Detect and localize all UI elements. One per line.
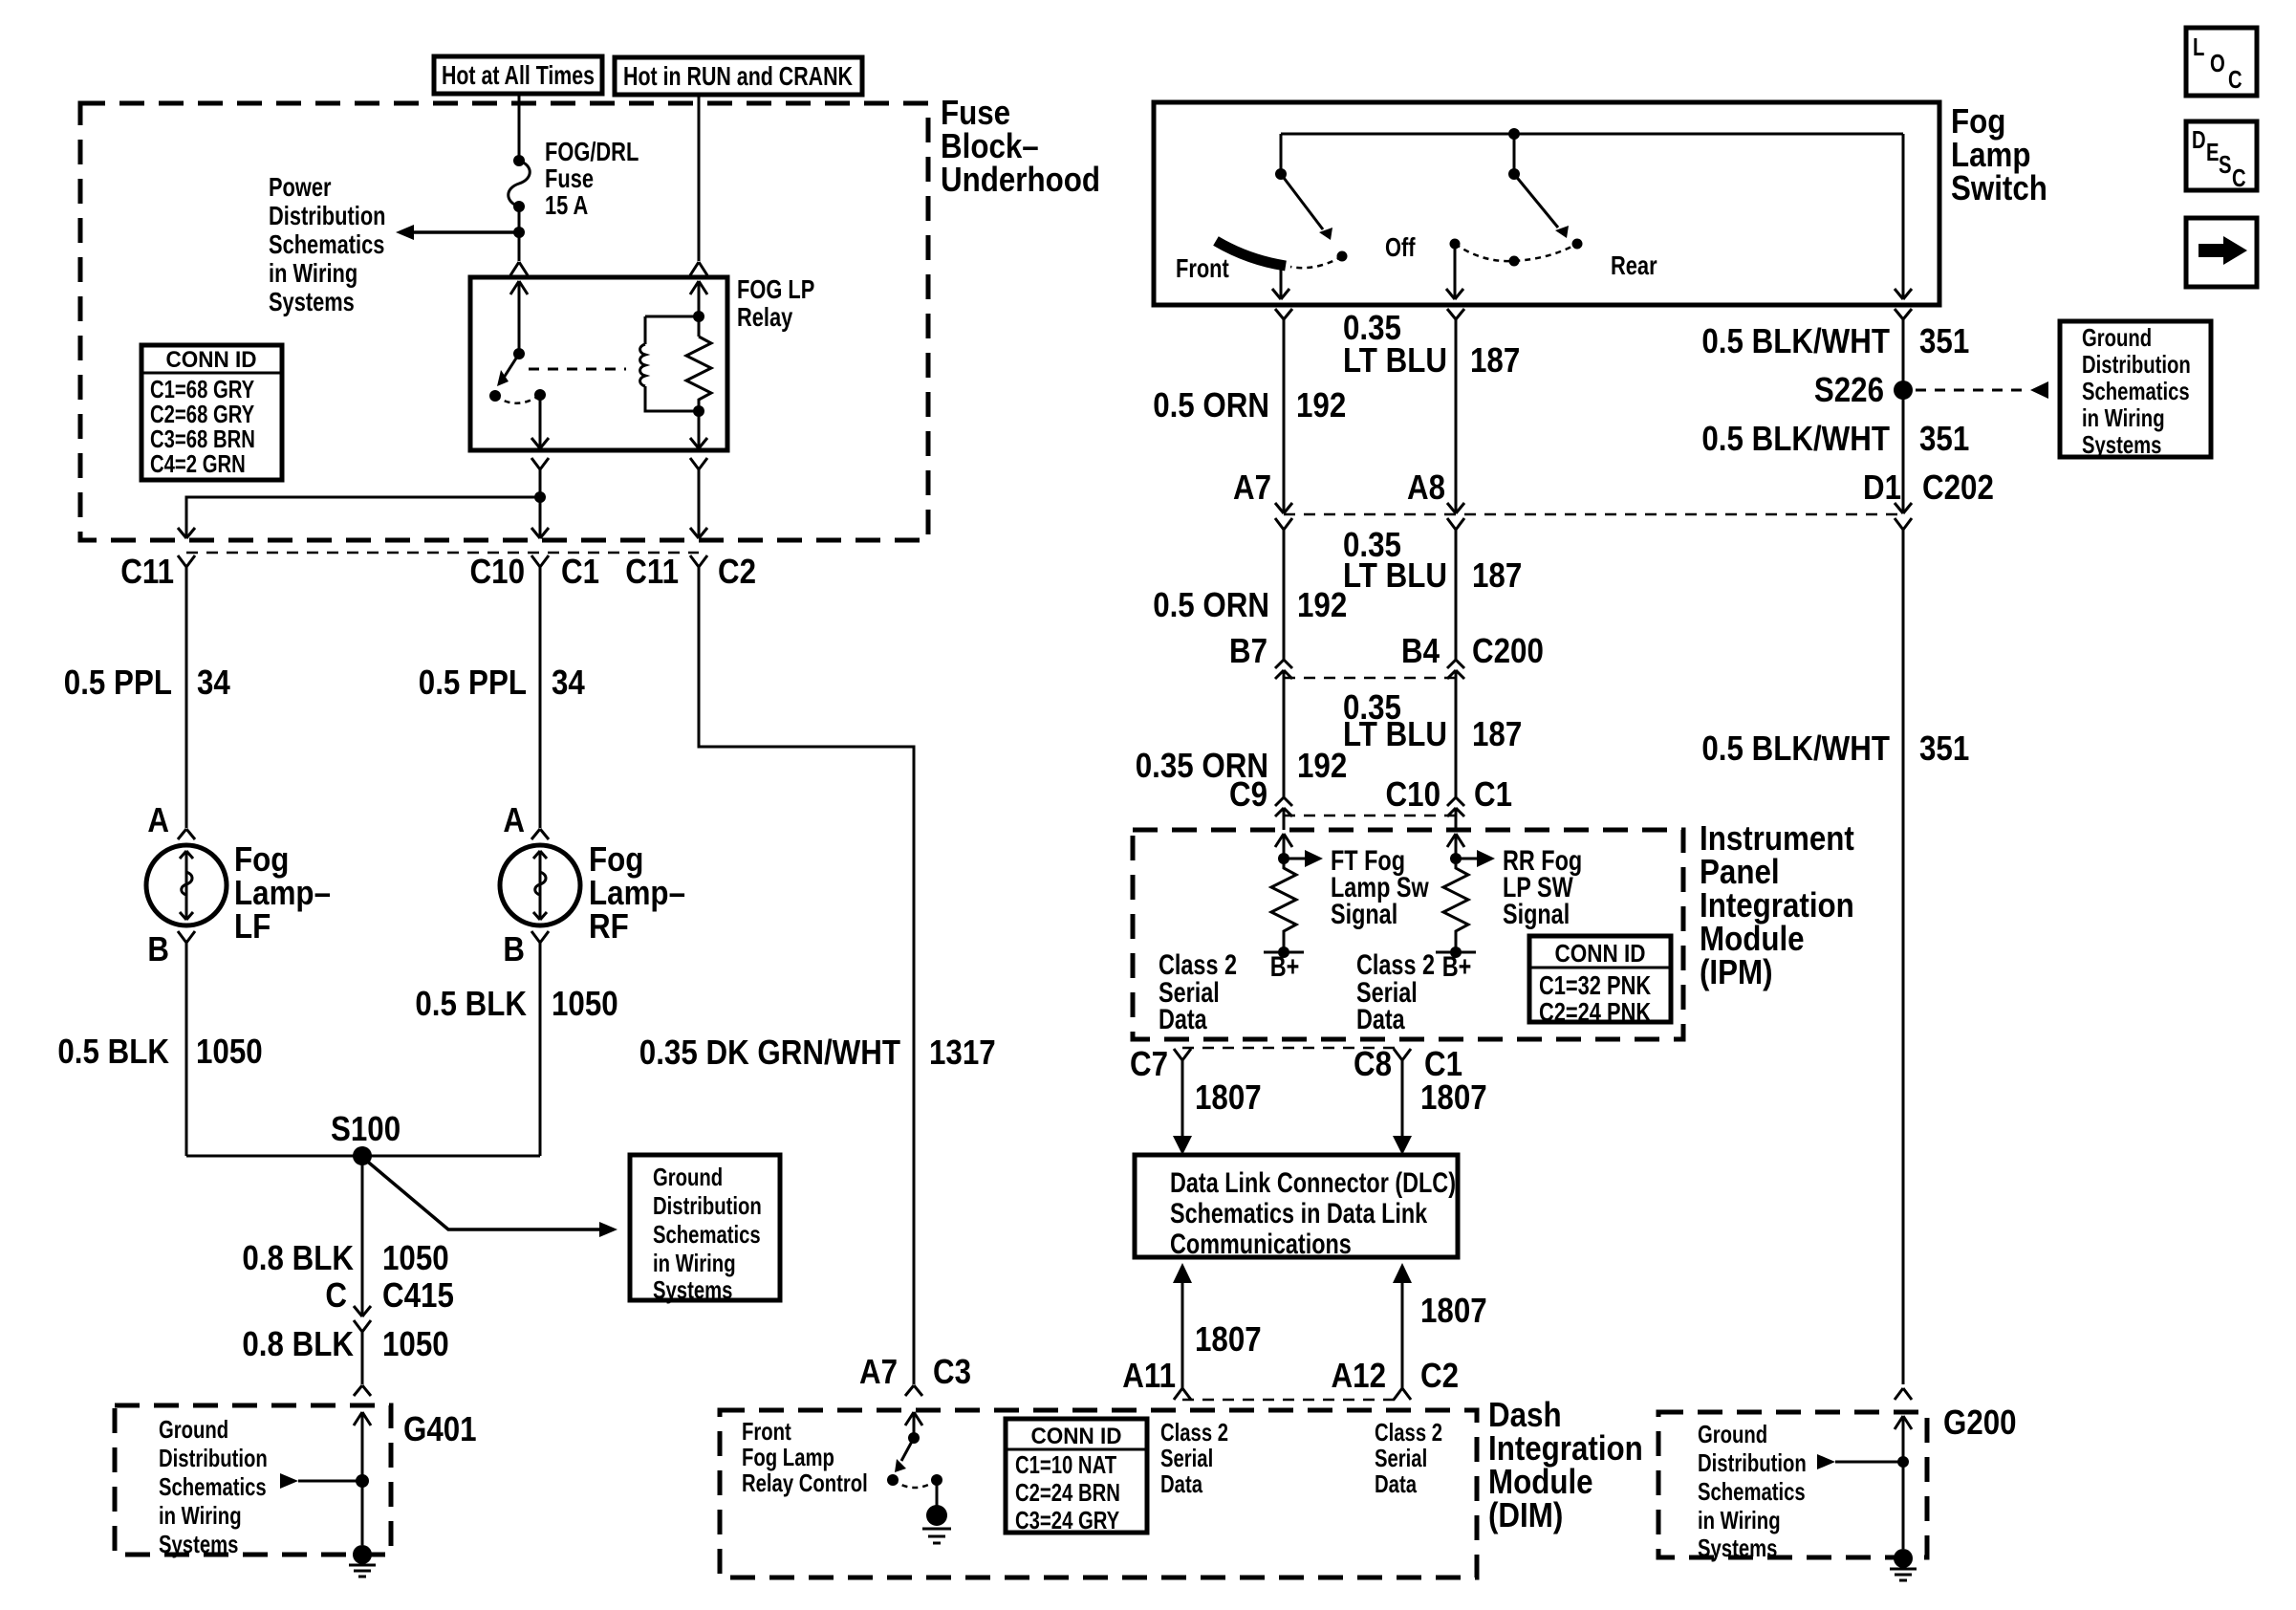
svg-text:15 A: 15 A (545, 190, 588, 220)
svg-text:CONN ID: CONN ID (166, 347, 257, 373)
svg-text:G401: G401 (403, 1409, 477, 1448)
svg-text:0.5 PPL: 0.5 PPL (64, 663, 172, 702)
svg-text:Ground: Ground (2082, 323, 2152, 352)
svg-text:192: 192 (1297, 585, 1347, 624)
svg-text:C11: C11 (625, 552, 679, 591)
svg-text:Schematics: Schematics (269, 229, 384, 259)
svg-text:A: A (503, 800, 525, 839)
svg-text:Data: Data (1159, 1004, 1207, 1035)
svg-text:B: B (147, 929, 169, 968)
svg-text:1050: 1050 (552, 984, 618, 1023)
svg-text:Systems: Systems (653, 1275, 732, 1304)
svg-text:B+: B+ (1442, 951, 1472, 983)
svg-text:Front: Front (742, 1417, 791, 1446)
svg-text:Relay Control: Relay Control (742, 1469, 868, 1497)
svg-text:1050: 1050 (382, 1324, 449, 1363)
svg-text:Relay: Relay (737, 302, 793, 332)
svg-text:1807: 1807 (1420, 1077, 1487, 1117)
svg-text:Off: Off (1385, 232, 1416, 262)
svg-text:0.5 BLK/WHT: 0.5 BLK/WHT (1701, 729, 1890, 768)
svg-text:D1: D1 (1863, 468, 1901, 507)
svg-text:C11: C11 (120, 552, 174, 591)
svg-text:LT BLU: LT BLU (1343, 340, 1447, 380)
svg-text:C4=2 GRN: C4=2 GRN (150, 449, 246, 478)
svg-text:351: 351 (1919, 729, 1969, 768)
svg-text:187: 187 (1472, 555, 1522, 595)
svg-text:192: 192 (1297, 746, 1347, 785)
svg-text:in Wiring: in Wiring (159, 1501, 242, 1530)
svg-text:A11: A11 (1122, 1356, 1176, 1395)
svg-text:Data: Data (1160, 1469, 1202, 1498)
svg-text:CONN ID: CONN ID (1555, 939, 1646, 968)
svg-text:Data Link Connector (DLC): Data Link Connector (DLC) (1170, 1167, 1456, 1199)
svg-text:0.8 BLK: 0.8 BLK (242, 1238, 354, 1277)
svg-text:FOG/DRL: FOG/DRL (545, 137, 639, 166)
svg-text:Ground: Ground (653, 1163, 723, 1191)
svg-text:B+: B+ (1270, 951, 1300, 983)
svg-text:C1: C1 (1474, 774, 1512, 814)
svg-text:1807: 1807 (1195, 1077, 1262, 1117)
svg-text:O: O (2210, 49, 2225, 77)
svg-text:C10: C10 (1386, 774, 1441, 814)
svg-text:Signal: Signal (1331, 899, 1397, 930)
svg-text:A7: A7 (1233, 468, 1271, 507)
svg-text:LF: LF (234, 906, 271, 946)
svg-text:0.5 PPL: 0.5 PPL (419, 663, 527, 702)
svg-text:in Wiring: in Wiring (1698, 1506, 1781, 1534)
svg-text:Class 2: Class 2 (1160, 1418, 1228, 1447)
svg-text:A7: A7 (859, 1352, 898, 1391)
svg-text:Systems: Systems (2082, 430, 2161, 459)
svg-text:B7: B7 (1229, 631, 1267, 670)
svg-text:C2: C2 (1420, 1356, 1459, 1395)
svg-text:0.5 ORN: 0.5 ORN (1153, 385, 1269, 424)
svg-text:C202: C202 (1922, 468, 1994, 507)
svg-text:Systems: Systems (1698, 1534, 1777, 1562)
svg-text:D: D (2192, 125, 2206, 154)
svg-text:Schematics: Schematics (653, 1220, 761, 1249)
svg-text:A12: A12 (1332, 1356, 1387, 1395)
svg-text:C7: C7 (1130, 1044, 1168, 1083)
svg-text:S: S (2219, 150, 2232, 179)
svg-text:C: C (2228, 65, 2242, 94)
svg-text:351: 351 (1919, 419, 1969, 458)
svg-text:192: 192 (1296, 385, 1346, 424)
svg-text:Schematics: Schematics (1698, 1477, 1806, 1506)
svg-text:1807: 1807 (1195, 1319, 1262, 1359)
svg-text:Hot at All Times: Hot at All Times (442, 60, 595, 90)
svg-text:Power: Power (269, 172, 332, 202)
svg-text:Serial: Serial (1160, 1444, 1213, 1472)
svg-text:Schematics: Schematics (159, 1472, 267, 1501)
svg-text:B: B (503, 929, 525, 968)
svg-text:0.5 BLK/WHT: 0.5 BLK/WHT (1701, 419, 1890, 458)
svg-text:Underhood: Underhood (941, 160, 1100, 199)
svg-text:Signal: Signal (1503, 899, 1570, 930)
svg-text:Class 2: Class 2 (1375, 1418, 1442, 1447)
svg-text:A: A (147, 800, 169, 839)
svg-text:Distribution: Distribution (1698, 1448, 1807, 1477)
svg-text:187: 187 (1470, 340, 1520, 380)
svg-text:C: C (325, 1275, 347, 1315)
svg-text:Distribution: Distribution (653, 1191, 762, 1220)
svg-text:C3: C3 (933, 1352, 971, 1391)
svg-text:C2=24 BRN: C2=24 BRN (1015, 1478, 1120, 1507)
svg-text:in Wiring: in Wiring (653, 1249, 736, 1277)
svg-text:Distribution: Distribution (2082, 350, 2191, 379)
svg-text:1317: 1317 (929, 1033, 996, 1072)
svg-text:in Wiring: in Wiring (269, 258, 357, 288)
svg-text:LT BLU: LT BLU (1343, 555, 1447, 595)
svg-text:Fuse: Fuse (545, 163, 594, 193)
svg-text:34: 34 (197, 663, 230, 702)
svg-text:S100: S100 (331, 1109, 401, 1148)
svg-text:0.35 DK GRN/WHT: 0.35 DK GRN/WHT (639, 1033, 900, 1072)
svg-text:Systems: Systems (159, 1530, 238, 1558)
svg-text:Schematics in Data Link: Schematics in Data Link (1170, 1198, 1427, 1229)
svg-text:CONN ID: CONN ID (1031, 1424, 1122, 1449)
svg-text:Data: Data (1375, 1469, 1417, 1498)
svg-text:RF: RF (589, 906, 629, 946)
svg-text:G200: G200 (1943, 1403, 2017, 1442)
svg-text:C2=24 PNK: C2=24 PNK (1539, 997, 1651, 1027)
svg-text:(IPM): (IPM) (1700, 952, 1773, 991)
svg-text:Data: Data (1356, 1004, 1405, 1035)
svg-text:1807: 1807 (1420, 1291, 1487, 1330)
svg-text:0.5 BLK: 0.5 BLK (57, 1032, 169, 1071)
svg-text:34: 34 (552, 663, 585, 702)
svg-text:Schematics: Schematics (2082, 377, 2190, 405)
svg-text:C1: C1 (561, 552, 599, 591)
svg-text:C: C (2232, 163, 2246, 192)
svg-text:C9: C9 (1229, 774, 1267, 814)
svg-text:S226: S226 (1814, 370, 1884, 409)
svg-text:B4: B4 (1401, 631, 1440, 670)
svg-text:Distribution: Distribution (159, 1444, 268, 1472)
svg-text:C1=32 PNK: C1=32 PNK (1539, 970, 1651, 1000)
svg-text:Ground: Ground (159, 1415, 228, 1444)
svg-text:0.8 BLK: 0.8 BLK (242, 1324, 354, 1363)
svg-text:LT BLU: LT BLU (1343, 714, 1447, 753)
svg-text:Fog Lamp: Fog Lamp (742, 1443, 834, 1471)
svg-text:Communications: Communications (1170, 1229, 1352, 1260)
svg-text:Serial: Serial (1375, 1444, 1427, 1472)
svg-text:Distribution: Distribution (269, 201, 386, 230)
svg-text:E: E (2206, 138, 2220, 166)
svg-text:(DIM): (DIM) (1488, 1495, 1563, 1534)
svg-text:Ground: Ground (1698, 1420, 1767, 1448)
svg-text:1050: 1050 (382, 1238, 449, 1277)
svg-text:Front: Front (1176, 253, 1229, 283)
svg-text:L: L (2193, 33, 2204, 61)
svg-text:A8: A8 (1407, 468, 1445, 507)
svg-text:C3=24 GRY: C3=24 GRY (1015, 1506, 1119, 1534)
svg-text:Rear: Rear (1611, 250, 1657, 280)
svg-text:C2: C2 (718, 552, 756, 591)
svg-text:351: 351 (1919, 321, 1969, 360)
svg-text:1050: 1050 (196, 1032, 263, 1071)
svg-text:C200: C200 (1472, 631, 1544, 670)
svg-text:187: 187 (1472, 714, 1522, 753)
svg-text:in Wiring: in Wiring (2082, 403, 2165, 432)
svg-text:C10: C10 (470, 552, 526, 591)
svg-text:Systems: Systems (269, 287, 355, 316)
svg-text:Switch: Switch (1951, 168, 2047, 207)
svg-text:C1=10 NAT: C1=10 NAT (1015, 1450, 1116, 1479)
svg-text:Hot in RUN and CRANK: Hot in RUN and CRANK (623, 61, 853, 91)
svg-text:FOG LP: FOG LP (737, 274, 814, 304)
svg-text:C8: C8 (1354, 1044, 1392, 1083)
svg-text:0.5 ORN: 0.5 ORN (1153, 585, 1269, 624)
svg-text:0.5 BLK: 0.5 BLK (415, 984, 527, 1023)
svg-text:C415: C415 (382, 1275, 454, 1315)
svg-text:0.5 BLK/WHT: 0.5 BLK/WHT (1701, 321, 1890, 360)
